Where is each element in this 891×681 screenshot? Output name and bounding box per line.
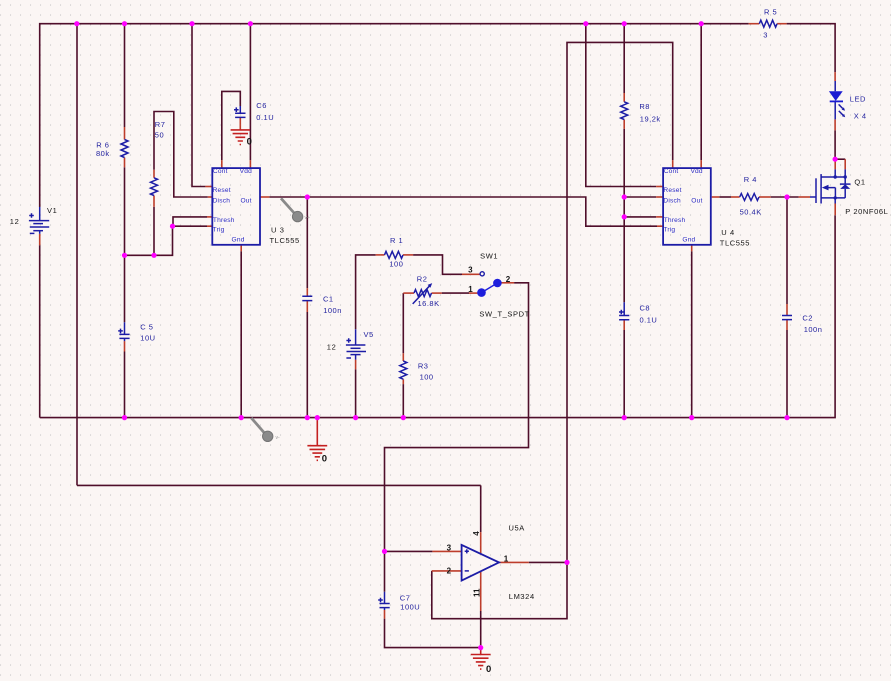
node U4 Disch / R8 <box>622 194 627 199</box>
wire top bus to R6 top <box>124 24 126 127</box>
lead R8 top <box>623 93 625 102</box>
wire U4 Out to R4 <box>719 196 731 198</box>
wire op-amp minus input feedback loop <box>432 562 567 618</box>
svg-text:TLC555: TLC555 <box>270 236 300 245</box>
wire ground bus across bottom, corner up to Q1 source <box>40 215 835 417</box>
lead R7 bottom <box>153 196 155 207</box>
svg-text:R 6: R 6 <box>96 141 109 150</box>
node bus / U4 Gnd <box>689 415 694 420</box>
wire top bus to R8 top <box>623 24 625 93</box>
wire LED cathode down to Q1 drain node <box>834 130 836 159</box>
lead U3 Disch <box>208 196 213 198</box>
wire R6 bottom through node to C5 top <box>124 167 126 322</box>
node top bus / R6 <box>122 21 127 26</box>
svg-text:Out: Out <box>691 198 702 205</box>
svg-text:Vdd: Vdd <box>690 168 702 175</box>
wire second 12V vertical x=77 down to lower 12V bus <box>76 24 78 486</box>
svg-text:C7: C7 <box>400 594 411 603</box>
wire R4 to Q1 gate with C2 node <box>771 196 799 198</box>
svg-text:50.4K: 50.4K <box>740 208 762 217</box>
wire U3 Out across to U4 Trig (corner down at x=586) <box>269 197 657 226</box>
wire U3 Cont up-and-over to C6 <box>222 91 241 160</box>
resistor R3 100 <box>400 361 434 381</box>
node U4 Thresh / R8 <box>622 214 627 219</box>
svg-text:Cont: Cont <box>213 168 228 175</box>
ground under C6, net 0 <box>231 130 252 147</box>
svg-text:0.1U: 0.1U <box>256 113 274 122</box>
lead R2 left <box>403 292 414 294</box>
svg-text:R8: R8 <box>639 102 650 111</box>
wire C7 bottom to ground node <box>385 619 481 648</box>
svg-text:10U: 10U <box>140 334 155 343</box>
svg-text:2: 2 <box>506 275 511 284</box>
wire R1 left corner to V5 plus <box>356 255 376 329</box>
svg-text:Cont: Cont <box>664 168 679 175</box>
probe v+ on U3 output <box>281 198 310 222</box>
wire V1 minus down to ground bus <box>39 245 41 417</box>
lead SW1 pin2 <box>501 282 514 284</box>
node bus / R3 <box>401 415 406 420</box>
lead C8 bottom <box>623 320 625 330</box>
wire U3 Vdd up to top bus <box>249 24 251 161</box>
svg-text:V1: V1 <box>47 206 57 215</box>
svg-text:0: 0 <box>322 454 327 465</box>
lead U3 Thresh <box>207 216 212 218</box>
wire lower 12V bus down to op-amp pin4 <box>480 485 482 532</box>
lead U3 Trig <box>207 225 212 227</box>
svg-text:Thresh: Thresh <box>213 217 235 224</box>
lead R1 left <box>376 254 385 256</box>
svg-text:16.8K: 16.8K <box>418 299 440 308</box>
svg-text:Reset: Reset <box>213 187 231 194</box>
lead op-amp output <box>499 561 529 563</box>
lead R7 top <box>153 170 155 178</box>
svg-text:TLC555: TLC555 <box>720 238 750 247</box>
wire R3 bottom to ground bus <box>402 384 404 417</box>
svg-text:3: 3 <box>447 544 452 553</box>
wire C8 bottom to ground bus <box>623 330 625 418</box>
wire C1 bottom to ground bus <box>306 312 308 418</box>
svg-text:Gnd: Gnd <box>682 236 695 243</box>
svg-text:Gnd: Gnd <box>232 236 245 243</box>
timer IC U3 TLC555 <box>212 168 299 245</box>
wire output node up to U4 Cont (over the top) <box>567 42 673 562</box>
svg-text:100: 100 <box>420 372 434 381</box>
svg-text:12: 12 <box>10 217 20 226</box>
op-amp U5A LM324 <box>447 524 535 601</box>
lead op-amp pin11 <box>480 572 482 611</box>
wire U4 Thresh stub from R8 column <box>624 216 656 218</box>
lead C6 bottom <box>239 117 241 129</box>
lead C7 bottom <box>384 610 386 619</box>
LED X4 <box>829 81 867 120</box>
wire U3 Gnd down to ground bus <box>240 251 242 417</box>
timer IC U4 TLC555 <box>663 168 750 247</box>
wire R7 top up-and-over to U3 Disch pin <box>154 112 208 198</box>
lead LED cathode <box>834 119 836 130</box>
node top bus / U4 Reset <box>583 21 588 26</box>
wire R7 bottom to row y=255 <box>153 207 155 256</box>
resistor R6 80k <box>96 140 128 159</box>
svg-text:R 4: R 4 <box>744 175 757 184</box>
node top bus / x77 <box>74 21 79 26</box>
svg-text:LED: LED <box>850 94 866 103</box>
MOSFET Q1 P20NF06L <box>810 169 888 216</box>
lead C5 bottom <box>124 341 126 351</box>
lead Q1 source <box>834 204 836 216</box>
lead C2 bottom <box>786 320 788 330</box>
wire U3 Trig horizontal <box>173 225 208 227</box>
svg-text:3: 3 <box>468 266 473 275</box>
lead R5 right <box>777 23 787 25</box>
svg-text:C8: C8 <box>640 304 651 313</box>
svg-text:0.1U: 0.1U <box>640 316 658 325</box>
svg-text:LM324: LM324 <box>509 592 535 601</box>
svg-text:100: 100 <box>389 259 403 268</box>
node R4 / C2 <box>784 194 789 199</box>
wire SW1 pin2 down-and-left to op-amp plus input and C7 <box>385 283 529 592</box>
wire R1 right corner down to SW1 pin3 <box>413 255 462 274</box>
svg-text:Trig: Trig <box>663 226 675 233</box>
lead Q1 gate <box>799 196 810 198</box>
wire top bus down to U3 Reset <box>192 24 205 187</box>
node bus / U3 Gnd <box>239 415 244 420</box>
svg-text:100n: 100n <box>804 325 823 334</box>
lead U4 Gnd <box>691 245 693 252</box>
svg-text:Reset: Reset <box>663 187 681 194</box>
resistor R1 100 <box>385 236 404 268</box>
node op-amp plus input <box>382 549 387 554</box>
lead SW1 pin1 <box>469 292 478 294</box>
svg-text:1: 1 <box>504 554 509 563</box>
node bus / C1 <box>305 415 310 420</box>
wire top 12V bus left segment with corner down to V1 <box>40 24 749 207</box>
ground on bottom bus, net 0 <box>307 418 327 465</box>
lead Q1 diode branch <box>844 159 846 169</box>
lead R3 top <box>402 353 404 361</box>
lead op-amp minus input <box>432 570 462 572</box>
wire R2 left corner down to R3 top <box>402 293 404 353</box>
capacitor C6 0.1U <box>234 101 274 122</box>
wire Q1 drain node to body diode branch <box>835 158 845 160</box>
svg-text:V5: V5 <box>364 330 374 339</box>
capacitor C2 100n <box>782 313 822 334</box>
lead C1 top <box>306 288 308 296</box>
node top bus / R8 <box>622 21 627 26</box>
svg-text:3: 3 <box>763 31 768 40</box>
wire C1 branch from Out node down <box>306 197 308 288</box>
node U3 Out / C1 <box>305 194 310 199</box>
battery V5 12V <box>327 329 374 359</box>
wire U4 Disch stub from R8 column <box>624 196 656 198</box>
lead R6 bottom <box>124 158 126 168</box>
wire V5 minus to ground bus <box>355 369 357 417</box>
lead U3 Cont <box>221 160 223 168</box>
lead U3 Out <box>260 196 269 198</box>
svg-text:SW1: SW1 <box>480 252 498 261</box>
svg-text:C6: C6 <box>256 101 267 110</box>
resistor R5 3 <box>759 7 777 39</box>
svg-text:v+: v+ <box>305 215 311 221</box>
svg-text:U 3: U 3 <box>271 226 284 235</box>
variable resistor R2 16.8K <box>413 275 440 308</box>
node op-amp output <box>564 560 569 565</box>
svg-text:R 1: R 1 <box>390 236 403 245</box>
svg-text:v-: v- <box>276 435 281 441</box>
svg-text:80k: 80k <box>96 149 110 158</box>
wire U4 Gnd down to ground bus <box>691 251 693 417</box>
wire lower 12V bus y=485 to op-amp pin4 column <box>77 484 481 486</box>
probe v- on ground bus <box>251 418 280 442</box>
lead V5 bottom <box>355 360 357 370</box>
lead U4 Disch <box>656 196 663 198</box>
svg-text:Out: Out <box>240 198 251 205</box>
svg-text:0: 0 <box>247 136 252 147</box>
node top bus / U3 Vdd <box>248 21 253 26</box>
node bus / V5 <box>353 415 358 420</box>
svg-text:Vdd: Vdd <box>240 168 252 175</box>
svg-text:11: 11 <box>472 588 481 597</box>
lead U3 Vdd <box>249 160 251 168</box>
lead R6 top <box>124 127 126 140</box>
node bus / C5 <box>122 415 127 420</box>
svg-text:Disch: Disch <box>663 198 681 205</box>
svg-text:12: 12 <box>327 342 337 351</box>
lead R1 right <box>403 254 413 256</box>
ground under op-amp, net 0 <box>471 648 491 676</box>
svg-text:100n: 100n <box>323 306 342 315</box>
switch SW1 SW_T_SPDT <box>468 252 530 319</box>
lead U4 Reset <box>656 186 663 188</box>
node top bus / U4 Vdd <box>699 21 704 26</box>
lead Q1 drain <box>834 161 836 170</box>
svg-text:Disch: Disch <box>213 198 231 205</box>
svg-text:C1: C1 <box>323 294 334 303</box>
lead R4 left <box>731 196 740 198</box>
wire plus-input node to op-amp <box>385 550 433 552</box>
svg-text:U5A: U5A <box>509 524 525 533</box>
node bus / C8 <box>622 415 627 420</box>
svg-text:1: 1 <box>468 285 473 294</box>
lead U4 Cont <box>672 160 674 168</box>
wire U3 Thresh to Trig tie <box>173 217 207 226</box>
lead R4 right <box>759 196 771 198</box>
lead U4 Out <box>712 196 720 198</box>
resistor R7 50 <box>151 120 166 196</box>
battery V1 12V <box>10 206 58 234</box>
node bus / ground <box>315 415 320 420</box>
svg-text:R3: R3 <box>418 361 429 370</box>
lead R8 bottom <box>623 120 625 129</box>
lead U3 Reset <box>205 186 212 188</box>
wire R8 bottom through Disch and Thresh nodes to C8 <box>623 129 625 302</box>
svg-text:100U: 100U <box>400 603 420 612</box>
wire C5 bottom to ground bus <box>124 352 126 418</box>
lead C2 top <box>786 304 788 316</box>
lead SW1 pin3 <box>462 273 480 275</box>
svg-text:Thresh: Thresh <box>664 217 686 224</box>
wire C2 node down to cap <box>786 197 788 304</box>
svg-text:R2: R2 <box>417 275 428 284</box>
node R7 bottom <box>151 253 156 258</box>
resistor R8 19.2k <box>621 102 661 124</box>
node bus / C2 <box>784 415 789 420</box>
lead R3 bottom <box>402 379 404 384</box>
wire C2 bottom to ground bus <box>786 330 788 418</box>
lead V1 bottom <box>39 234 41 246</box>
lead U3 Gnd <box>240 245 242 252</box>
capacitor C1 100n <box>302 294 342 315</box>
svg-text:4: 4 <box>472 531 481 536</box>
lead op-amp pin4 <box>480 532 482 554</box>
wire U4 Vdd up to top bus <box>700 24 702 161</box>
lead U4 Vdd <box>700 160 702 168</box>
lead R2 right <box>432 292 442 294</box>
svg-text:SW_T_SPDT: SW_T_SPDT <box>479 310 529 319</box>
svg-text:X 4: X 4 <box>854 111 867 120</box>
svg-text:C 5: C 5 <box>140 323 153 332</box>
node Q1 drain / LED <box>833 157 838 162</box>
wire top bus down to U4 Reset <box>586 24 656 187</box>
svg-text:2: 2 <box>447 566 452 575</box>
svg-text:R 5: R 5 <box>764 7 777 16</box>
node U3 Trig <box>170 224 175 229</box>
wire node row y=255 from R6 over R7 corner up to U3 Trig node <box>125 226 173 255</box>
capacitor C8 0.1U <box>619 302 657 324</box>
svg-text:R7: R7 <box>155 120 166 129</box>
lead LED anode <box>834 72 836 81</box>
svg-text:Trig: Trig <box>213 226 225 233</box>
capacitor C5 10U <box>118 322 155 342</box>
svg-text:Q1: Q1 <box>854 177 865 186</box>
wire op-amp pin11 down to ground node <box>480 611 482 648</box>
svg-text:P 20NF06L: P 20NF06L <box>845 207 888 216</box>
svg-text:C2: C2 <box>802 313 813 322</box>
lead C1 bottom <box>306 301 308 312</box>
wire op-amp output to node <box>529 561 567 563</box>
svg-text:0: 0 <box>486 664 491 675</box>
node R6-C5 / row255 <box>122 253 127 258</box>
lead U4 Trig <box>657 225 663 227</box>
wire top bus right of R5, corner down toward LED <box>787 24 836 72</box>
wire R2 right to SW1 pin1 <box>442 292 469 294</box>
lead U4 Thresh <box>656 216 663 218</box>
svg-text:19,2k: 19,2k <box>640 114 661 123</box>
svg-text:U 4: U 4 <box>721 228 734 237</box>
capacitor C7 100U <box>378 592 420 612</box>
node top bus / U3 Reset <box>189 21 194 26</box>
resistor R4 50.4K <box>740 175 762 217</box>
lead R5 left <box>749 23 760 25</box>
node op-amp ground <box>478 645 483 650</box>
svg-text:50: 50 <box>155 131 164 140</box>
lead op-amp plus input <box>432 550 461 552</box>
